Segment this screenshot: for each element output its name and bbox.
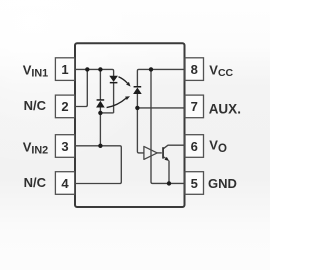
wire LED2 branch xyxy=(99,69,101,99)
LED D2 up-pointing xyxy=(96,99,105,107)
wire photodiode anode down to amp input xyxy=(137,94,144,153)
pin 4 box xyxy=(55,172,74,195)
pin 6 box xyxy=(185,135,204,158)
transistor Q1 xyxy=(162,147,169,161)
pin 5 box xyxy=(185,172,204,195)
pin 1 box xyxy=(55,58,74,81)
light arrow from D2 xyxy=(107,98,126,107)
wire amp power rail xyxy=(151,69,191,183)
svg-text:1: 1 xyxy=(61,62,68,77)
junction LED anodes xyxy=(98,111,102,115)
svg-text:AUX.: AUX. xyxy=(209,102,241,117)
svg-text:8: 8 xyxy=(191,62,198,77)
wire collector to pin6 xyxy=(164,145,192,148)
IC body U1 xyxy=(75,43,185,207)
svg-text:5: 5 xyxy=(191,176,198,191)
wire pin3 pin4 net xyxy=(68,146,121,184)
svg-text:GND: GND xyxy=(208,176,237,191)
svg-text:7: 7 xyxy=(191,99,198,114)
junction VCC rail to amp supply xyxy=(149,67,153,71)
wire emitter down to gnd xyxy=(168,161,170,184)
op-amp U2 xyxy=(144,146,157,159)
junction LED branch to pin3 net xyxy=(98,144,102,148)
svg-text:3: 3 xyxy=(61,139,68,154)
svg-text:2: 2 xyxy=(61,99,68,114)
pin 7 box xyxy=(185,95,204,118)
svg-text:6: 6 xyxy=(191,139,198,154)
pin boxes xyxy=(55,58,203,195)
junction pin1 net to LED D2 xyxy=(98,67,102,71)
wire amp output to base xyxy=(157,152,162,154)
junction emitter to GND net xyxy=(167,181,171,185)
wire VCC rail to photodiode xyxy=(137,69,191,86)
wire LED2 anode down to pin3 net xyxy=(99,107,101,146)
junction pin1-pin2 net xyxy=(85,67,89,71)
wire pin7 AUX net xyxy=(137,107,191,109)
LED D1 down-pointing xyxy=(109,76,118,84)
photodiode D3 xyxy=(133,86,142,94)
pin numbers xyxy=(61,62,197,191)
pin 8 box xyxy=(185,58,204,81)
svg-text:N/C: N/C xyxy=(24,175,47,190)
pin 3 box xyxy=(55,135,74,158)
wire connector LED bottoms xyxy=(100,112,113,114)
svg-text:4: 4 xyxy=(61,176,69,191)
light arrow from D1 xyxy=(119,77,128,83)
wire LED1 cathode down xyxy=(113,82,115,113)
wire pin1 net top xyxy=(68,69,114,76)
svg-text:N/C: N/C xyxy=(24,98,47,113)
junction photodiode to pin7 net xyxy=(135,106,139,110)
wire pin2 net xyxy=(68,69,87,106)
pin 2 box xyxy=(55,95,74,118)
